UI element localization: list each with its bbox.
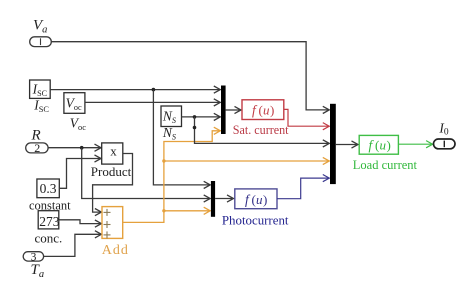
- svg-text:f: f: [369, 138, 375, 153]
- plus sign add input 3: [104, 231, 111, 238]
- svg-text:conc.: conc.: [35, 231, 63, 246]
- junction dot on R wire: [80, 146, 84, 150]
- constant block Voc: [64, 93, 85, 114]
- outport oval 1 (I0): [434, 139, 456, 149]
- junction dot on ISC wire: [152, 88, 156, 92]
- mux U3 (load current mux): [330, 104, 336, 184]
- constant block ISC: [30, 80, 51, 98]
- wire add U5 output (orange trunk): [123, 127, 221, 222]
- wire orange branch to mux U2 input 3: [164, 207, 210, 214]
- svg-text:0.3: 0.3: [40, 181, 57, 196]
- constant block 0.3: [37, 179, 59, 198]
- svg-text:ISC: ISC: [33, 98, 49, 115]
- junction dot orange at branch to mux U3: [162, 159, 165, 162]
- wire NS to mux U1 input 3: [182, 113, 221, 120]
- Fcn block f(u) load current (green): [359, 135, 398, 154]
- svg-text:273: 273: [39, 214, 60, 229]
- wire photocurrent f(u) to mux U3 input 5 (navy): [277, 175, 329, 199]
- svg-text:Voc: Voc: [66, 96, 82, 113]
- svg-text:Sat. current: Sat. current: [233, 123, 289, 137]
- wire sat current f(u) to mux U3 input 2 (red): [284, 109, 330, 129]
- wire R junction down to mux U2 input 2: [82, 148, 211, 202]
- wire R to product U4 input 1: [48, 144, 101, 151]
- constant block 273: [38, 211, 59, 229]
- Fcn block f(u) sat current (red): [242, 100, 284, 120]
- svg-text:u: u: [256, 192, 263, 207]
- svg-text:u: u: [263, 103, 270, 118]
- plus sign add input 1: [104, 209, 111, 216]
- mux U1 (sat current mux): [221, 86, 226, 135]
- junction dot on NS vertical: [193, 126, 197, 130]
- inport oval 1 (Va source): [30, 37, 52, 47]
- wire mux U3 to f(u) load current: [336, 141, 358, 148]
- wire mux U1 to f(u) sat current: [226, 106, 241, 113]
- wire NS junction down and right to mux U3 input 3: [195, 117, 330, 147]
- svg-text:2: 2: [34, 141, 40, 155]
- wire Voc to mux U1: [85, 99, 220, 106]
- wire ISC junction down to mux U2: [153, 90, 210, 189]
- add block U5 (orange): [102, 207, 123, 239]
- wire 0.3 to product U4 input 2: [59, 155, 101, 188]
- svg-text:NS: NS: [162, 109, 176, 125]
- constant block NS: [161, 106, 182, 127]
- wire load current f(u) to outport (green): [398, 141, 432, 148]
- plus sign add input 2: [104, 221, 111, 228]
- Fcn block f(u) photocurrent (navy): [235, 189, 277, 209]
- svg-text:u: u: [380, 138, 387, 153]
- inport oval 2 (R source): [26, 143, 48, 153]
- wire Va to mux U3: [51, 42, 329, 114]
- svg-text:f: f: [245, 192, 251, 207]
- wire product U4 output to add U5 input 1: [93, 154, 133, 216]
- wire orange branch to mux U3 input 4: [164, 157, 329, 164]
- svg-text:Product: Product: [91, 164, 132, 179]
- svg-text:Add: Add: [102, 243, 129, 258]
- svg-text:Load current: Load current: [353, 158, 418, 172]
- svg-text:x: x: [110, 143, 117, 158]
- svg-text:Ta: Ta: [31, 262, 45, 280]
- wire 273 to add U5 input 2: [59, 220, 102, 227]
- inport oval 3 (Ta source): [23, 252, 43, 261]
- product block U4: [102, 143, 123, 164]
- mux U2 (photocurrent mux): [211, 181, 215, 217]
- svg-text:I0: I0: [438, 120, 449, 137]
- svg-text:Photocurrent: Photocurrent: [222, 213, 289, 227]
- wire ISC to mux U1: [50, 86, 220, 93]
- junction dot orange at branch to mux U2: [162, 209, 165, 212]
- svg-text:ISC: ISC: [32, 82, 48, 99]
- svg-text:Va: Va: [33, 18, 47, 36]
- wire Ta to add U5 input 3: [44, 231, 102, 257]
- svg-text:): ): [263, 192, 267, 207]
- svg-text:f: f: [252, 103, 258, 118]
- svg-text:Voc: Voc: [70, 116, 86, 133]
- wire mux U2 to f(u) photocurrent: [215, 195, 233, 202]
- svg-text:): ): [387, 138, 391, 153]
- svg-text:NS: NS: [162, 125, 176, 141]
- junction dot on NS wire: [193, 115, 197, 119]
- svg-text:): ): [270, 103, 274, 118]
